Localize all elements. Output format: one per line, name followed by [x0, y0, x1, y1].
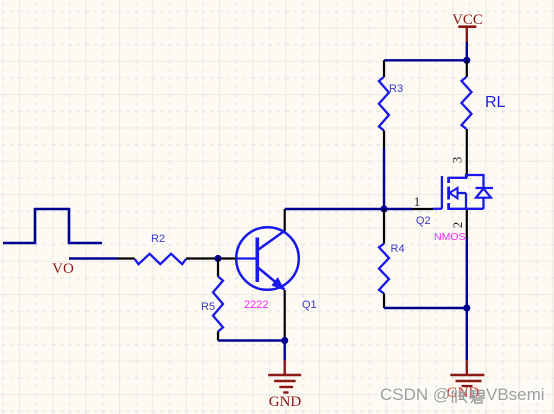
node T junction dot — [463, 57, 470, 64]
wire Q2 source to GND — [466, 238, 468, 308]
svg-text:R3: R3 — [389, 83, 403, 95]
wire R3 down to node G — [383, 148, 385, 209]
resistor R2 — [135, 254, 186, 264]
svg-text:Q1: Q1 — [302, 299, 317, 311]
resistor R5 pin lead bottom — [217, 332, 219, 341]
resistor R5 pin lead top — [217, 259, 219, 277]
transistor Q1 base line — [237, 257, 257, 259]
watermark CJK glyph bi — [470, 391, 486, 404]
watermark CJK glyph wei — [452, 390, 468, 403]
wire VCC down to node T — [466, 42, 468, 60]
wire gate net horizontal — [285, 208, 412, 210]
node emitter-gnd junction dot — [281, 337, 288, 344]
resistor R2 pin lead left — [118, 257, 135, 259]
resistor R3 pin lead bottom — [383, 131, 385, 149]
wire Q1 collector up — [284, 209, 286, 231]
transistor Q2 channel top segment — [447, 177, 450, 183]
ground GND left symbol — [268, 360, 301, 393]
wire VO net horizontal — [69, 257, 118, 259]
wire R4 bottom to source node — [384, 307, 467, 309]
wire Q1 emitter down — [284, 290, 286, 341]
svg-text:R5: R5 — [201, 301, 215, 313]
transistor Q2 source connect — [449, 208, 484, 210]
transistor Q1 circle — [236, 227, 299, 290]
resistor R5 — [213, 277, 223, 332]
watermark halo — [380, 385, 545, 404]
svg-text:NMOS: NMOS — [434, 231, 466, 243]
resistor R3 pin lead top — [383, 60, 385, 77]
resistor R4 pin lead top — [383, 209, 385, 244]
pulse waveform symbol — [3, 209, 102, 243]
diode D-body cathode bar — [476, 187, 494, 189]
resistor R4 — [379, 244, 389, 294]
transistor Q2 channel bottom segment — [447, 203, 450, 210]
node G junction dot — [380, 205, 387, 212]
transistor Q2 drain connect — [449, 175, 484, 188]
svg-text:R4: R4 — [391, 243, 405, 255]
svg-text:2: 2 — [450, 222, 465, 229]
wire RL bottom to Q2 drain — [466, 129, 468, 178]
transistor Q1 emitter stroke — [259, 268, 285, 290]
diode D-body triangle — [476, 189, 491, 198]
watermark CSDN text — [380, 385, 545, 404]
node source junction dot — [463, 304, 470, 311]
resistor R4 pin lead bottom — [383, 294, 385, 309]
wire source node down to GND right — [466, 308, 468, 360]
svg-text:2222: 2222 — [244, 299, 268, 311]
svg-text:Q2: Q2 — [416, 215, 431, 227]
transistor Q2 gate lead — [433, 208, 442, 210]
transistor Q1 emitter arrowhead — [272, 277, 285, 291]
diode D-body lower lead — [482, 198, 484, 209]
transistor Q2 substrate arrow — [450, 188, 458, 199]
resistor RL pin lead top — [466, 60, 468, 77]
svg-text:VO: VO — [52, 261, 74, 277]
transistor Q1 collector stroke — [259, 231, 286, 250]
wire R5 bottom to emitter node — [218, 339, 285, 341]
svg-text:RL: RL — [485, 94, 506, 111]
wire emitter node to GND — [284, 341, 286, 361]
ground GND right symbol — [450, 360, 484, 386]
node B junction dot — [214, 255, 221, 262]
transistor Q2 channel mid segment — [447, 187, 450, 200]
svg-text:R2: R2 — [151, 233, 165, 245]
power VCC bar symbol — [458, 25, 476, 28]
wire top horizontal VCC rail — [384, 59, 467, 61]
svg-text:3: 3 — [450, 157, 465, 164]
resistor RL — [462, 77, 472, 129]
resistor R3 — [379, 77, 389, 131]
svg-text:1: 1 — [414, 194, 421, 209]
svg-text:VBsemi: VBsemi — [486, 385, 545, 404]
pin 1 lead Q2 gate — [412, 208, 433, 210]
resistor R2 pin lead right / wire to node B — [186, 257, 237, 259]
transistor Q2 gate bar — [441, 176, 443, 209]
svg-text:CSDN @: CSDN @ — [380, 385, 450, 404]
svg-text:GND: GND — [269, 394, 302, 410]
pin 2 lead Q2 source down — [466, 210, 468, 238]
transistor Q1 base bar — [255, 238, 259, 283]
